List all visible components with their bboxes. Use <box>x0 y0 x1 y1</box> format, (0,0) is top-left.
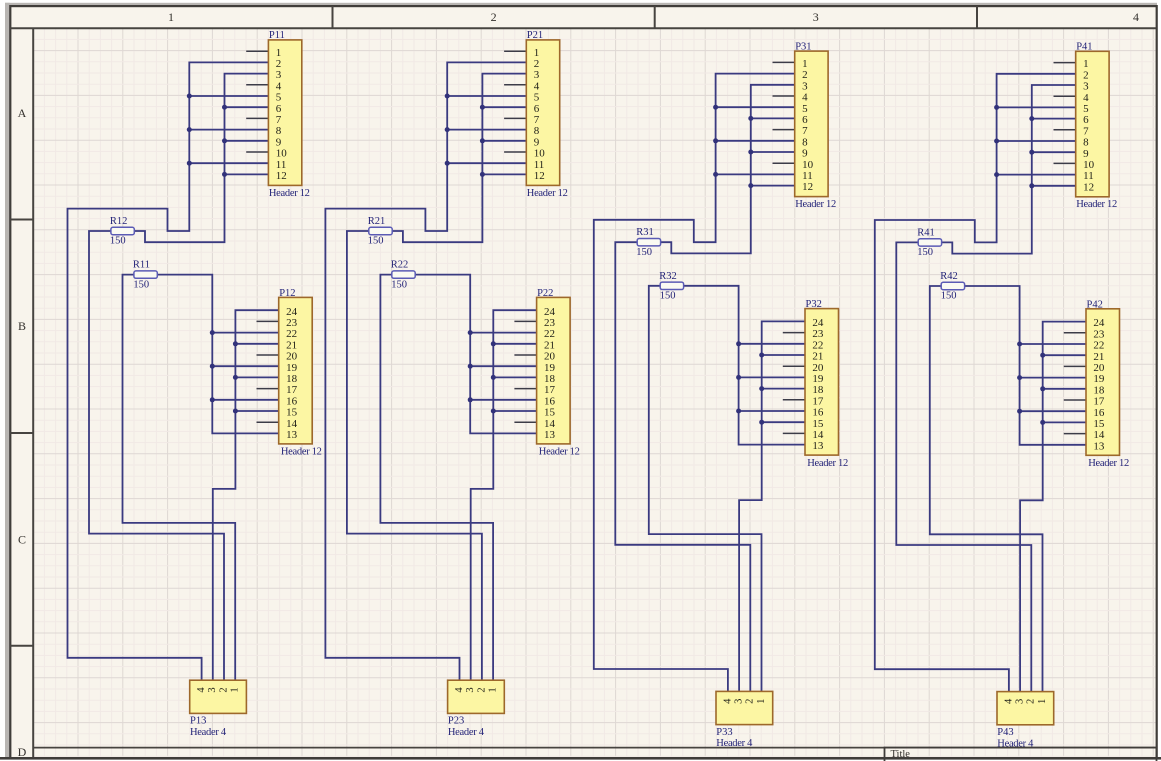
junction <box>187 94 192 99</box>
svg-text:150: 150 <box>110 236 126 247</box>
svg-text:4: 4 <box>196 687 207 693</box>
window gray edge left <box>5 3 10 759</box>
top band divider 1 <box>332 6 334 28</box>
svg-text:1: 1 <box>276 47 282 59</box>
svg-text:5: 5 <box>534 92 540 104</box>
svg-text:3: 3 <box>1083 81 1089 93</box>
pin stub P31.4 <box>773 95 795 97</box>
wire net R12 left to P13.2 <box>89 231 224 680</box>
resistor R21 <box>369 227 392 234</box>
svg-text:P22: P22 <box>537 288 553 299</box>
svg-text:21: 21 <box>1093 351 1104 363</box>
column 4 circuit <box>875 42 1129 750</box>
svg-text:22: 22 <box>286 328 297 340</box>
junction <box>445 127 450 132</box>
junction <box>759 420 764 425</box>
svg-text:Header 12: Header 12 <box>807 458 848 469</box>
wire P11.5 branch <box>189 95 268 97</box>
svg-text:12: 12 <box>534 170 545 182</box>
column 1 circuit <box>68 30 322 738</box>
pin stub P41.7 <box>1054 129 1076 131</box>
junction <box>713 105 718 110</box>
svg-text:12: 12 <box>276 170 287 182</box>
svg-text:R22: R22 <box>391 260 409 271</box>
svg-text:P12: P12 <box>279 288 295 299</box>
pin stub P21.7 <box>504 117 526 119</box>
sheet top band line <box>10 27 1156 29</box>
wire P32 branch <box>762 421 805 423</box>
svg-text:13: 13 <box>812 440 824 452</box>
junction <box>1029 183 1034 188</box>
junction <box>1040 386 1045 391</box>
wire P42 branch <box>1020 377 1086 379</box>
wire P41.11 branch <box>997 174 1076 176</box>
wire P31.8 branch <box>716 140 795 142</box>
junction <box>736 341 741 346</box>
svg-text:3: 3 <box>802 80 808 92</box>
svg-text:23: 23 <box>812 328 824 340</box>
resistor R31 <box>637 239 660 246</box>
wire P32 branch <box>762 354 805 356</box>
wire P31.11 branch <box>716 173 795 175</box>
connector P21 Header 12 <box>526 40 559 186</box>
pin stub P11.4 <box>246 84 268 86</box>
svg-text:17: 17 <box>286 384 298 396</box>
svg-text:4: 4 <box>722 698 733 704</box>
pin stub P42.20 <box>1064 365 1086 367</box>
svg-text:P11: P11 <box>269 30 285 41</box>
svg-text:11: 11 <box>1083 170 1094 182</box>
svg-text:14: 14 <box>544 418 556 430</box>
svg-text:Header 12: Header 12 <box>269 188 310 199</box>
junction <box>994 105 999 110</box>
svg-text:Header 12: Header 12 <box>281 447 322 458</box>
junction <box>1040 420 1045 425</box>
wire P12 branch <box>235 376 278 378</box>
junction <box>480 105 485 110</box>
junction <box>713 138 718 143</box>
svg-text:16: 16 <box>812 407 824 419</box>
svg-text:4: 4 <box>454 687 465 693</box>
svg-text:R42: R42 <box>940 271 958 282</box>
svg-text:15: 15 <box>544 407 556 419</box>
junction <box>187 127 192 132</box>
svg-text:R12: R12 <box>110 216 128 227</box>
svg-text:23: 23 <box>544 317 556 329</box>
svg-text:Header 4: Header 4 <box>190 727 227 738</box>
svg-text:5: 5 <box>1083 103 1089 115</box>
pin stub P31.1 <box>773 61 795 63</box>
svg-text:12: 12 <box>802 181 813 193</box>
left band divider 1 <box>10 219 33 221</box>
left band divider 2 <box>10 432 33 434</box>
pin stub P32.23 <box>783 332 805 334</box>
wire P42 branch <box>1043 354 1086 356</box>
junction <box>468 364 473 369</box>
svg-text:R31: R31 <box>636 227 654 238</box>
connector P31 Header 12 <box>795 51 828 196</box>
pin stub P22.23 <box>514 320 536 322</box>
window bottom edge <box>0 757 1161 760</box>
svg-text:1: 1 <box>534 47 540 59</box>
wire net P12.24/21/18/15 to P13.3 <box>213 310 279 680</box>
wire P22 branch <box>470 332 536 334</box>
sheet bottom drawing line <box>33 747 1156 749</box>
wire P11.9 branch <box>225 140 269 142</box>
svg-text:2: 2 <box>745 699 756 704</box>
svg-text:6: 6 <box>276 103 282 115</box>
junction <box>759 353 764 358</box>
wire P42 branch <box>1020 410 1086 412</box>
svg-text:14: 14 <box>1093 429 1105 441</box>
svg-text:10: 10 <box>534 148 546 160</box>
wire P12 branch <box>212 365 278 367</box>
svg-text:R41: R41 <box>917 227 935 238</box>
svg-text:19: 19 <box>544 362 556 374</box>
svg-text:P33: P33 <box>716 727 732 738</box>
wire P22 branch <box>493 376 536 378</box>
svg-text:1: 1 <box>756 699 767 704</box>
svg-text:8: 8 <box>534 125 540 137</box>
top band divider 3 <box>976 6 978 28</box>
svg-text:8: 8 <box>1083 137 1089 149</box>
junction <box>491 409 496 414</box>
wire P12 branch <box>212 332 278 334</box>
svg-text:19: 19 <box>1093 373 1105 385</box>
svg-text:4: 4 <box>1133 10 1139 24</box>
svg-text:11: 11 <box>534 159 545 171</box>
svg-text:Header 12: Header 12 <box>1088 458 1129 469</box>
svg-text:C: C <box>18 533 26 547</box>
wire P12 branch <box>235 410 278 412</box>
wire net R42 right to P42.22/19/16/13 <box>965 286 1086 445</box>
wire net P11.3/6/9/12 to R12 right <box>134 74 268 243</box>
junction <box>1040 353 1045 358</box>
svg-text:14: 14 <box>812 429 824 441</box>
svg-text:P13: P13 <box>190 716 206 727</box>
connector P13 Header 4 <box>190 680 247 713</box>
pin stub P32.20 <box>783 365 805 367</box>
svg-text:23: 23 <box>1093 328 1105 340</box>
wire P31.12 branch <box>751 185 795 187</box>
svg-text:8: 8 <box>276 125 282 137</box>
pin stub P42.17 <box>1064 399 1086 401</box>
wire net R11 right to P12.22/19/16/13 <box>157 275 278 434</box>
svg-text:2: 2 <box>476 687 487 692</box>
wire P12 branch <box>235 343 278 345</box>
pin stub P11.1 <box>246 50 268 52</box>
junction <box>736 409 741 414</box>
pin stub P12.23 <box>257 320 279 322</box>
pin stub P12.17 <box>257 388 279 390</box>
wire P21.8 branch <box>447 129 526 131</box>
wire P42 branch <box>1020 343 1086 345</box>
wire P22 branch <box>493 343 536 345</box>
svg-text:1: 1 <box>1083 58 1089 70</box>
wire P32 branch <box>739 343 805 345</box>
wire P11.6 branch <box>225 106 269 108</box>
top band divider 2 <box>654 6 656 28</box>
junction <box>1029 150 1034 155</box>
svg-text:9: 9 <box>1083 148 1089 160</box>
svg-text:3: 3 <box>276 69 282 81</box>
svg-text:5: 5 <box>276 92 282 104</box>
wire P31.6 branch <box>751 117 795 119</box>
svg-text:13: 13 <box>1093 440 1105 452</box>
pin stub P22.14 <box>514 421 536 423</box>
pin stub P42.23 <box>1064 332 1086 334</box>
svg-text:2: 2 <box>1083 69 1089 81</box>
wire net P41.2/5/8/11 to P43.4 <box>875 74 1076 692</box>
wire net P42.24/21/18/15 to P43.3 <box>1020 322 1086 692</box>
sheet left band line <box>32 28 34 757</box>
svg-text:150: 150 <box>941 291 957 302</box>
svg-text:3: 3 <box>465 687 476 692</box>
svg-text:21: 21 <box>544 339 555 351</box>
wire net P22.24/21/18/15 to P23.3 <box>471 310 537 680</box>
wire net R41 left to P43.2 <box>896 242 1031 691</box>
wire net P32.24/21/18/15 to P33.3 <box>739 321 805 691</box>
svg-text:4: 4 <box>1003 698 1014 704</box>
pin stub P32.14 <box>783 432 805 434</box>
svg-text:20: 20 <box>1093 362 1105 374</box>
svg-text:1: 1 <box>168 10 174 24</box>
svg-text:12: 12 <box>1083 181 1094 193</box>
junction <box>445 161 450 166</box>
svg-text:150: 150 <box>636 247 652 258</box>
svg-text:150: 150 <box>391 279 407 290</box>
wire P31.9 branch <box>751 151 795 153</box>
wire net R21 left to P23.2 <box>347 231 482 680</box>
pin stub P41.10 <box>1054 162 1076 164</box>
pin stub P21.1 <box>504 50 526 52</box>
window gray edge top <box>5 3 1157 6</box>
svg-text:Header 12: Header 12 <box>1076 199 1117 210</box>
junction <box>748 183 753 188</box>
svg-text:16: 16 <box>1093 407 1105 419</box>
pin stub P11.10 <box>246 151 268 153</box>
junction <box>222 138 227 143</box>
svg-text:9: 9 <box>802 148 808 160</box>
svg-text:150: 150 <box>368 236 384 247</box>
wire P22 branch <box>493 410 536 412</box>
svg-text:150: 150 <box>660 291 676 302</box>
wire P21.6 branch <box>482 106 526 108</box>
svg-text:5: 5 <box>802 103 808 115</box>
svg-text:10: 10 <box>1083 159 1095 171</box>
connector P11 Header 12 <box>268 40 301 186</box>
junction <box>491 375 496 380</box>
junction <box>491 341 496 346</box>
junction <box>222 105 227 110</box>
junction <box>748 150 753 155</box>
wire net P21.2/5/8/11 to P23.4 <box>325 62 526 680</box>
junction <box>713 172 718 177</box>
svg-text:18: 18 <box>286 373 298 385</box>
left band divider 3 <box>10 645 33 647</box>
svg-text:18: 18 <box>544 373 556 385</box>
svg-text:7: 7 <box>276 114 282 126</box>
svg-text:21: 21 <box>286 339 297 351</box>
junction <box>1017 342 1022 347</box>
svg-text:2: 2 <box>1026 699 1037 704</box>
svg-text:1: 1 <box>488 687 499 692</box>
wire net P21.3/6/9/12 to R21 right <box>392 74 526 243</box>
svg-text:3: 3 <box>1015 699 1026 704</box>
pin stub P21.10 <box>504 151 526 153</box>
svg-text:16: 16 <box>544 395 556 407</box>
wire net R11 left to P13.1 <box>123 275 236 681</box>
svg-text:2: 2 <box>491 10 497 24</box>
wire net R31 left to P33.2 <box>615 242 750 691</box>
pin stub P41.4 <box>1054 95 1076 97</box>
resistor R42 <box>941 282 964 289</box>
column 2 circuit <box>325 30 579 738</box>
svg-text:22: 22 <box>812 339 823 351</box>
svg-text:R32: R32 <box>659 271 677 282</box>
wire P22 branch <box>470 399 536 401</box>
wire net P31.2/5/8/11 to P33.4 <box>594 74 795 692</box>
junction <box>1017 409 1022 414</box>
wire P21.9 branch <box>482 140 526 142</box>
junction <box>445 94 450 99</box>
svg-text:1: 1 <box>802 58 808 70</box>
svg-text:4: 4 <box>276 80 282 92</box>
svg-text:23: 23 <box>286 317 298 329</box>
svg-text:17: 17 <box>812 395 824 407</box>
svg-text:7: 7 <box>1083 125 1089 137</box>
junction <box>222 172 227 177</box>
junction <box>210 364 215 369</box>
svg-text:9: 9 <box>276 136 282 148</box>
svg-text:3: 3 <box>813 10 819 24</box>
svg-text:Header 4: Header 4 <box>448 727 485 738</box>
svg-text:6: 6 <box>534 103 540 115</box>
junction <box>480 172 485 177</box>
svg-text:24: 24 <box>544 306 556 318</box>
svg-text:Header 12: Header 12 <box>539 447 580 458</box>
junction <box>480 138 485 143</box>
svg-text:1: 1 <box>230 687 241 692</box>
wire net P41.3/6/9/12 to R41 right <box>942 85 1076 254</box>
svg-text:2: 2 <box>276 58 282 70</box>
svg-text:22: 22 <box>1093 340 1104 352</box>
svg-text:10: 10 <box>276 148 288 160</box>
svg-text:A: A <box>18 106 27 120</box>
svg-text:7: 7 <box>534 114 540 126</box>
connector P12 Header 12 <box>279 297 313 444</box>
wire P31.5 branch <box>716 106 795 108</box>
svg-text:21: 21 <box>812 351 823 363</box>
svg-text:19: 19 <box>812 373 824 385</box>
svg-text:16: 16 <box>286 395 298 407</box>
pin stub P21.4 <box>504 84 526 86</box>
wire P32 branch <box>739 410 805 412</box>
junction <box>1029 116 1034 121</box>
resistor R22 <box>392 271 415 278</box>
svg-text:3: 3 <box>207 687 218 692</box>
pin stub P22.17 <box>514 388 536 390</box>
svg-text:10: 10 <box>802 159 814 171</box>
junction <box>233 341 238 346</box>
junction <box>233 375 238 380</box>
svg-text:13: 13 <box>544 429 556 441</box>
connector P33 Header 4 <box>716 691 773 724</box>
pin stub P12.14 <box>257 421 279 423</box>
resistor R12 <box>111 227 134 234</box>
junction <box>759 386 764 391</box>
svg-text:17: 17 <box>1093 396 1105 408</box>
svg-text:P41: P41 <box>1076 42 1092 53</box>
svg-text:R11: R11 <box>133 260 150 271</box>
svg-text:20: 20 <box>286 351 298 363</box>
svg-text:B: B <box>18 319 26 333</box>
svg-text:24: 24 <box>812 317 824 329</box>
wire P41.12 branch <box>1032 185 1076 187</box>
svg-text:P43: P43 <box>997 727 1013 738</box>
svg-text:8: 8 <box>802 136 808 148</box>
svg-text:9: 9 <box>534 136 540 148</box>
svg-text:1: 1 <box>1037 699 1048 704</box>
wire P41.5 branch <box>997 106 1076 108</box>
svg-text:Header 12: Header 12 <box>795 199 836 210</box>
wire net P11.2/5/8/11 to P13.4 <box>68 62 269 680</box>
svg-text:P21: P21 <box>527 30 543 41</box>
svg-text:4: 4 <box>802 92 808 104</box>
svg-text:6: 6 <box>802 114 808 126</box>
wire P42 branch <box>1043 388 1086 390</box>
svg-text:P31: P31 <box>795 41 811 52</box>
connector P32 Header 12 <box>805 309 839 456</box>
wire P11.12 branch <box>225 173 269 175</box>
svg-text:17: 17 <box>544 384 556 396</box>
junction <box>736 375 741 380</box>
svg-text:4: 4 <box>1083 92 1089 104</box>
wire P11.11 branch <box>189 162 268 164</box>
svg-text:11: 11 <box>276 159 287 171</box>
svg-text:15: 15 <box>1093 418 1105 430</box>
wire P21.12 branch <box>482 173 526 175</box>
title block <box>885 748 1157 761</box>
junction <box>468 330 473 335</box>
svg-text:7: 7 <box>802 125 808 137</box>
pin stub P42.14 <box>1064 433 1086 435</box>
svg-text:P23: P23 <box>448 716 464 727</box>
svg-text:14: 14 <box>286 418 298 430</box>
pin stub P22.20 <box>514 354 536 356</box>
resistor R32 <box>660 282 683 289</box>
pin stub P31.7 <box>773 129 795 131</box>
wire P22 branch <box>470 365 536 367</box>
svg-text:24: 24 <box>1093 317 1105 329</box>
svg-text:19: 19 <box>286 362 298 374</box>
pin stub P11.7 <box>246 117 268 119</box>
svg-text:15: 15 <box>286 407 298 419</box>
svg-text:15: 15 <box>812 418 824 430</box>
wire net R22 left to P23.1 <box>380 275 493 681</box>
svg-text:Header 12: Header 12 <box>527 188 568 199</box>
svg-text:13: 13 <box>286 429 298 441</box>
svg-text:11: 11 <box>802 170 813 182</box>
wire P21.5 branch <box>447 95 526 97</box>
junction <box>187 161 192 166</box>
svg-text:20: 20 <box>812 362 824 374</box>
svg-text:P32: P32 <box>806 299 822 310</box>
svg-text:2: 2 <box>534 58 540 70</box>
wire net R32 right to P32.22/19/16/13 <box>684 286 805 445</box>
wire net R42 left to P43.1 <box>930 286 1043 692</box>
junction <box>1017 375 1022 380</box>
